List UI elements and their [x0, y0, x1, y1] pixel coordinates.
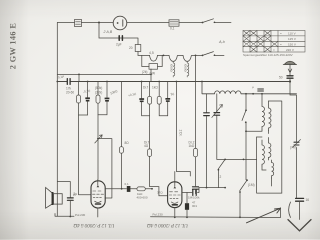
tube V1 grids: [93, 191, 104, 198]
ground symbol: [288, 220, 311, 231]
capacitor C15: [127, 186, 131, 192]
IF2 winding right: [269, 138, 271, 161]
node osc j2: [252, 93, 254, 95]
wire drop to bus: [78, 74, 80, 81]
coil T1b dip: [183, 55, 191, 61]
trimmer C12: [294, 142, 299, 145]
varicap arc: [289, 202, 291, 218]
wire tube2 anode lead: [182, 188, 199, 193]
svg-text:1kΩ: 1kΩ: [152, 86, 158, 90]
svg-text:A,b: A,b: [218, 40, 225, 44]
wire v98 tube1 anode: [97, 82, 99, 180]
wire upper parallel line: [57, 73, 151, 75]
svg-text:2µ: 2µ: [170, 91, 175, 96]
svg-text:8Ω: 8Ω: [125, 141, 130, 145]
speaker LS cone: [46, 188, 52, 209]
wire IF1 top frame: [269, 101, 282, 193]
wire IF1 bottom: [246, 130, 269, 134]
svg-text:110 V: 110 V: [288, 32, 296, 36]
resistor R4: [96, 95, 100, 103]
svg-text:5µ: 5µ: [74, 192, 78, 196]
node rail b1: [174, 216, 176, 218]
capacitor C14: [67, 198, 73, 200]
wire shunt loop: [142, 55, 162, 66]
svg-text:2µF: 2µF: [116, 43, 122, 47]
capacitor C4 electrolytic: [85, 97, 90, 99]
varactor mark: [95, 135, 102, 143]
node lamp tap: [98, 22, 100, 24]
svg-text:37Ω: 37Ω: [157, 191, 163, 195]
resistor R5: [119, 147, 123, 154]
svg-text:=: =: [273, 48, 275, 52]
wire lamp shunt: [99, 23, 138, 56]
wire right column: [290, 82, 297, 199]
tube V1 anode dot: [97, 185, 100, 187]
svg-text:0,1µ: 0,1µ: [57, 74, 64, 80]
svg-text:100Ω: 100Ω: [109, 89, 118, 96]
capacitor C5 electrolytic: [105, 98, 110, 100]
node h187 a: [206, 187, 208, 189]
svg-text:+0,1µ: +0,1µ: [128, 91, 137, 97]
resistor R9: [194, 148, 198, 156]
coil T1b winding: [187, 61, 189, 77]
fuse F1: [75, 20, 82, 27]
node heater tap: [163, 55, 165, 57]
switch S2b: [246, 179, 248, 181]
wire v216 trimmer: [216, 94, 218, 160]
tube V2 envelope: [168, 182, 182, 208]
wire v159 res branch: [159, 82, 168, 116]
tuning arrow: [247, 208, 281, 223]
svg-text:(32k): (32k): [95, 91, 102, 95]
wire tube1 anode lead: [105, 188, 152, 190]
svg-text:1kΩ: 1kΩ: [189, 144, 195, 148]
svg-text:µ: µ: [252, 85, 254, 89]
capacitor C1 20u: [119, 36, 122, 40]
svg-text:400-600: 400-600: [137, 195, 148, 199]
wire antenna to bus: [289, 78, 291, 81]
wire v79: [79, 82, 91, 195]
node tap: [150, 74, 152, 76]
node if1: [245, 130, 247, 132]
resistor R6: [148, 96, 152, 104]
svg-text:UL 12 P /2000 ü 4Ω: UL 12 P /2000 ü 4Ω: [73, 222, 114, 228]
wire osc coil line: [202, 82, 297, 94]
wire antenna stem arrow: [288, 65, 292, 76]
svg-text:001: 001: [192, 204, 197, 208]
table crosses: [243, 31, 278, 53]
wire v149 tube2 anode chain: [150, 82, 168, 196]
wire hline 159: [217, 158, 257, 160]
svg-text:≈: ≈: [280, 42, 282, 46]
svg-text:20-60: 20-60: [66, 90, 74, 94]
svg-text:16: 16: [306, 198, 310, 202]
svg-text:(7M): (7M): [290, 146, 297, 150]
IF1 winding left: [262, 94, 265, 130]
svg-text:50: 50: [279, 76, 283, 80]
node bus j5: [176, 81, 178, 83]
svg-text:0,1: 0,1: [170, 27, 175, 31]
node bus j2: [106, 81, 108, 83]
wire c17 to rail: [186, 210, 188, 218]
switch S1a: [202, 22, 204, 24]
node bus j6: [201, 81, 203, 83]
switch S2c: [218, 159, 225, 168]
voltage table: [243, 31, 305, 53]
wire v109 capacitor branch: [98, 82, 107, 115]
svg-text:2: 2: [220, 175, 222, 179]
tube V1 bottom lead: [97, 208, 99, 217]
node grid: [97, 138, 99, 140]
wire v208 padder: [206, 94, 208, 188]
svg-text:/0000/: /0000/: [170, 64, 174, 73]
wire v195 osc chain: [195, 55, 197, 186]
wire s2b to rail: [239, 192, 241, 217]
capacitor C16: [193, 190, 196, 196]
node rail b2: [186, 216, 188, 218]
wire tube2 cap branch: [186, 193, 188, 204]
coil T1a dip: [169, 55, 177, 61]
resistor R8: [157, 96, 161, 104]
svg-text:≈: ≈: [280, 32, 282, 36]
coil T1a winding: [173, 61, 175, 77]
wire speaker top: [57, 182, 70, 198]
switch S2a: [245, 109, 247, 111]
node bus end: [289, 80, 291, 82]
node heater tap2: [195, 55, 197, 57]
svg-text:150 V: 150 V: [288, 42, 296, 46]
svg-text:2 GW 146 E: 2 GW 146 E: [9, 23, 18, 70]
table texts: [243, 32, 296, 57]
coil L2 horizontal: [215, 91, 242, 94]
svg-text:UL 12 P /2000 ü 4Ω: UL 12 P /2000 ü 4Ω: [147, 222, 188, 228]
node osc j3: [261, 93, 263, 95]
capacitor C11 trimmer: [214, 113, 220, 116]
svg-text:Pol.230: Pol.230: [75, 213, 86, 217]
node h159 b: [243, 159, 245, 161]
capacitor C10: [204, 113, 210, 116]
IF3 winding small: [272, 160, 274, 178]
node bus j4: [158, 81, 160, 83]
svg-text:Pol.230: Pol.230: [153, 212, 164, 216]
node corner: [78, 74, 80, 76]
IF2 winding left: [262, 140, 264, 166]
wire hline 187: [199, 187, 225, 189]
resistor R3: [77, 95, 81, 103]
coil Dr 4,5 dip: [150, 55, 158, 61]
svg-text:(50k): (50k): [95, 86, 102, 90]
tube V1 envelope: [91, 181, 105, 208]
resistor R7: [148, 149, 152, 157]
wire left vertical drop: [56, 23, 58, 82]
resistor R2: [149, 64, 158, 70]
capacitor C7: [165, 98, 170, 100]
dial lamp L1: [113, 16, 127, 30]
tube V2 bottom lead: [174, 208, 176, 218]
svg-text:2 A,B: 2 A,B: [103, 30, 113, 34]
resistor R10: [137, 187, 145, 191]
wire c14 to rail: [69, 200, 71, 216]
svg-text:/0000/: /0000/: [184, 64, 188, 73]
capacitor C17 electrolytic: [185, 203, 189, 210]
svg-text:2 Dr.: 2 Dr.: [179, 130, 183, 137]
capacitor C3 antenna: [287, 76, 293, 78]
svg-text:(1M): (1M): [248, 183, 255, 187]
node t1 lead end: [151, 188, 153, 190]
node bus j3: [141, 81, 143, 83]
node h187 b: [224, 187, 226, 189]
wire v176 tube2 grid top: [175, 82, 191, 183]
fuse F2: [169, 20, 179, 26]
svg-text:-0,1µ: -0,1µ: [82, 88, 90, 94]
rail segment B: [151, 208, 281, 218]
svg-text:4Ω: 4Ω: [144, 144, 149, 148]
node osc j1: [245, 93, 247, 95]
wire c8 tail: [195, 189, 197, 193]
node bus start: [56, 81, 58, 83]
svg-text:(2k): (2k): [142, 70, 148, 74]
wire heater line: [138, 54, 224, 56]
node h159 a: [224, 159, 226, 161]
wire cap to ground: [299, 201, 301, 219]
svg-text:4,5: 4,5: [149, 51, 154, 55]
wire coil tap drop: [150, 69, 152, 82]
speaker driver box: [54, 194, 63, 204]
svg-text:0,1: 0,1: [125, 182, 130, 186]
wire can frame: [257, 137, 282, 193]
svg-text:Spannungswähler 110-125-150-22: Spannungswähler 110-125-150-220V: [243, 53, 293, 57]
IF1 winding right: [269, 101, 272, 131]
capacitor C6: [139, 98, 144, 100]
node bus j1: [87, 81, 89, 83]
wire left vertical to speaker: [56, 82, 58, 217]
capacitor C2 0,1u series: [67, 79, 70, 85]
wire v140 cap branch: [142, 82, 150, 116]
node t1 lead: [121, 188, 123, 190]
svg-text:1M/100k: 1M/100k: [188, 196, 200, 200]
resistor R1: [135, 45, 141, 52]
rail segment A: [55, 214, 74, 217]
svg-text:220 V: 220 V: [286, 48, 294, 52]
capacitor C13: [296, 198, 304, 201]
svg-text:Dr.f: Dr.f: [143, 86, 148, 90]
node rail a: [69, 216, 71, 218]
antenna A1: [284, 61, 295, 64]
wire grid L: [98, 139, 112, 198]
wire switch column: [245, 94, 247, 180]
wire v88 capacitor branch: [79, 82, 88, 116]
wire v121 screen: [121, 82, 123, 189]
svg-text:125 V: 125 V: [288, 37, 296, 41]
tube V2 grids: [169, 192, 180, 199]
speaker pole bar: [52, 192, 54, 205]
svg-text:20: 20: [129, 46, 133, 50]
switch S1b: [202, 55, 204, 57]
wire can top stub: [257, 136, 262, 138]
capacitor C9: [258, 89, 264, 91]
wire top mains line: [57, 22, 231, 24]
tube V2 anode dot: [174, 186, 177, 188]
wire v167 cap branch: [167, 82, 169, 116]
main bus: [57, 81, 290, 83]
capacitor C8: [193, 187, 199, 189]
node rail b3: [239, 216, 241, 218]
